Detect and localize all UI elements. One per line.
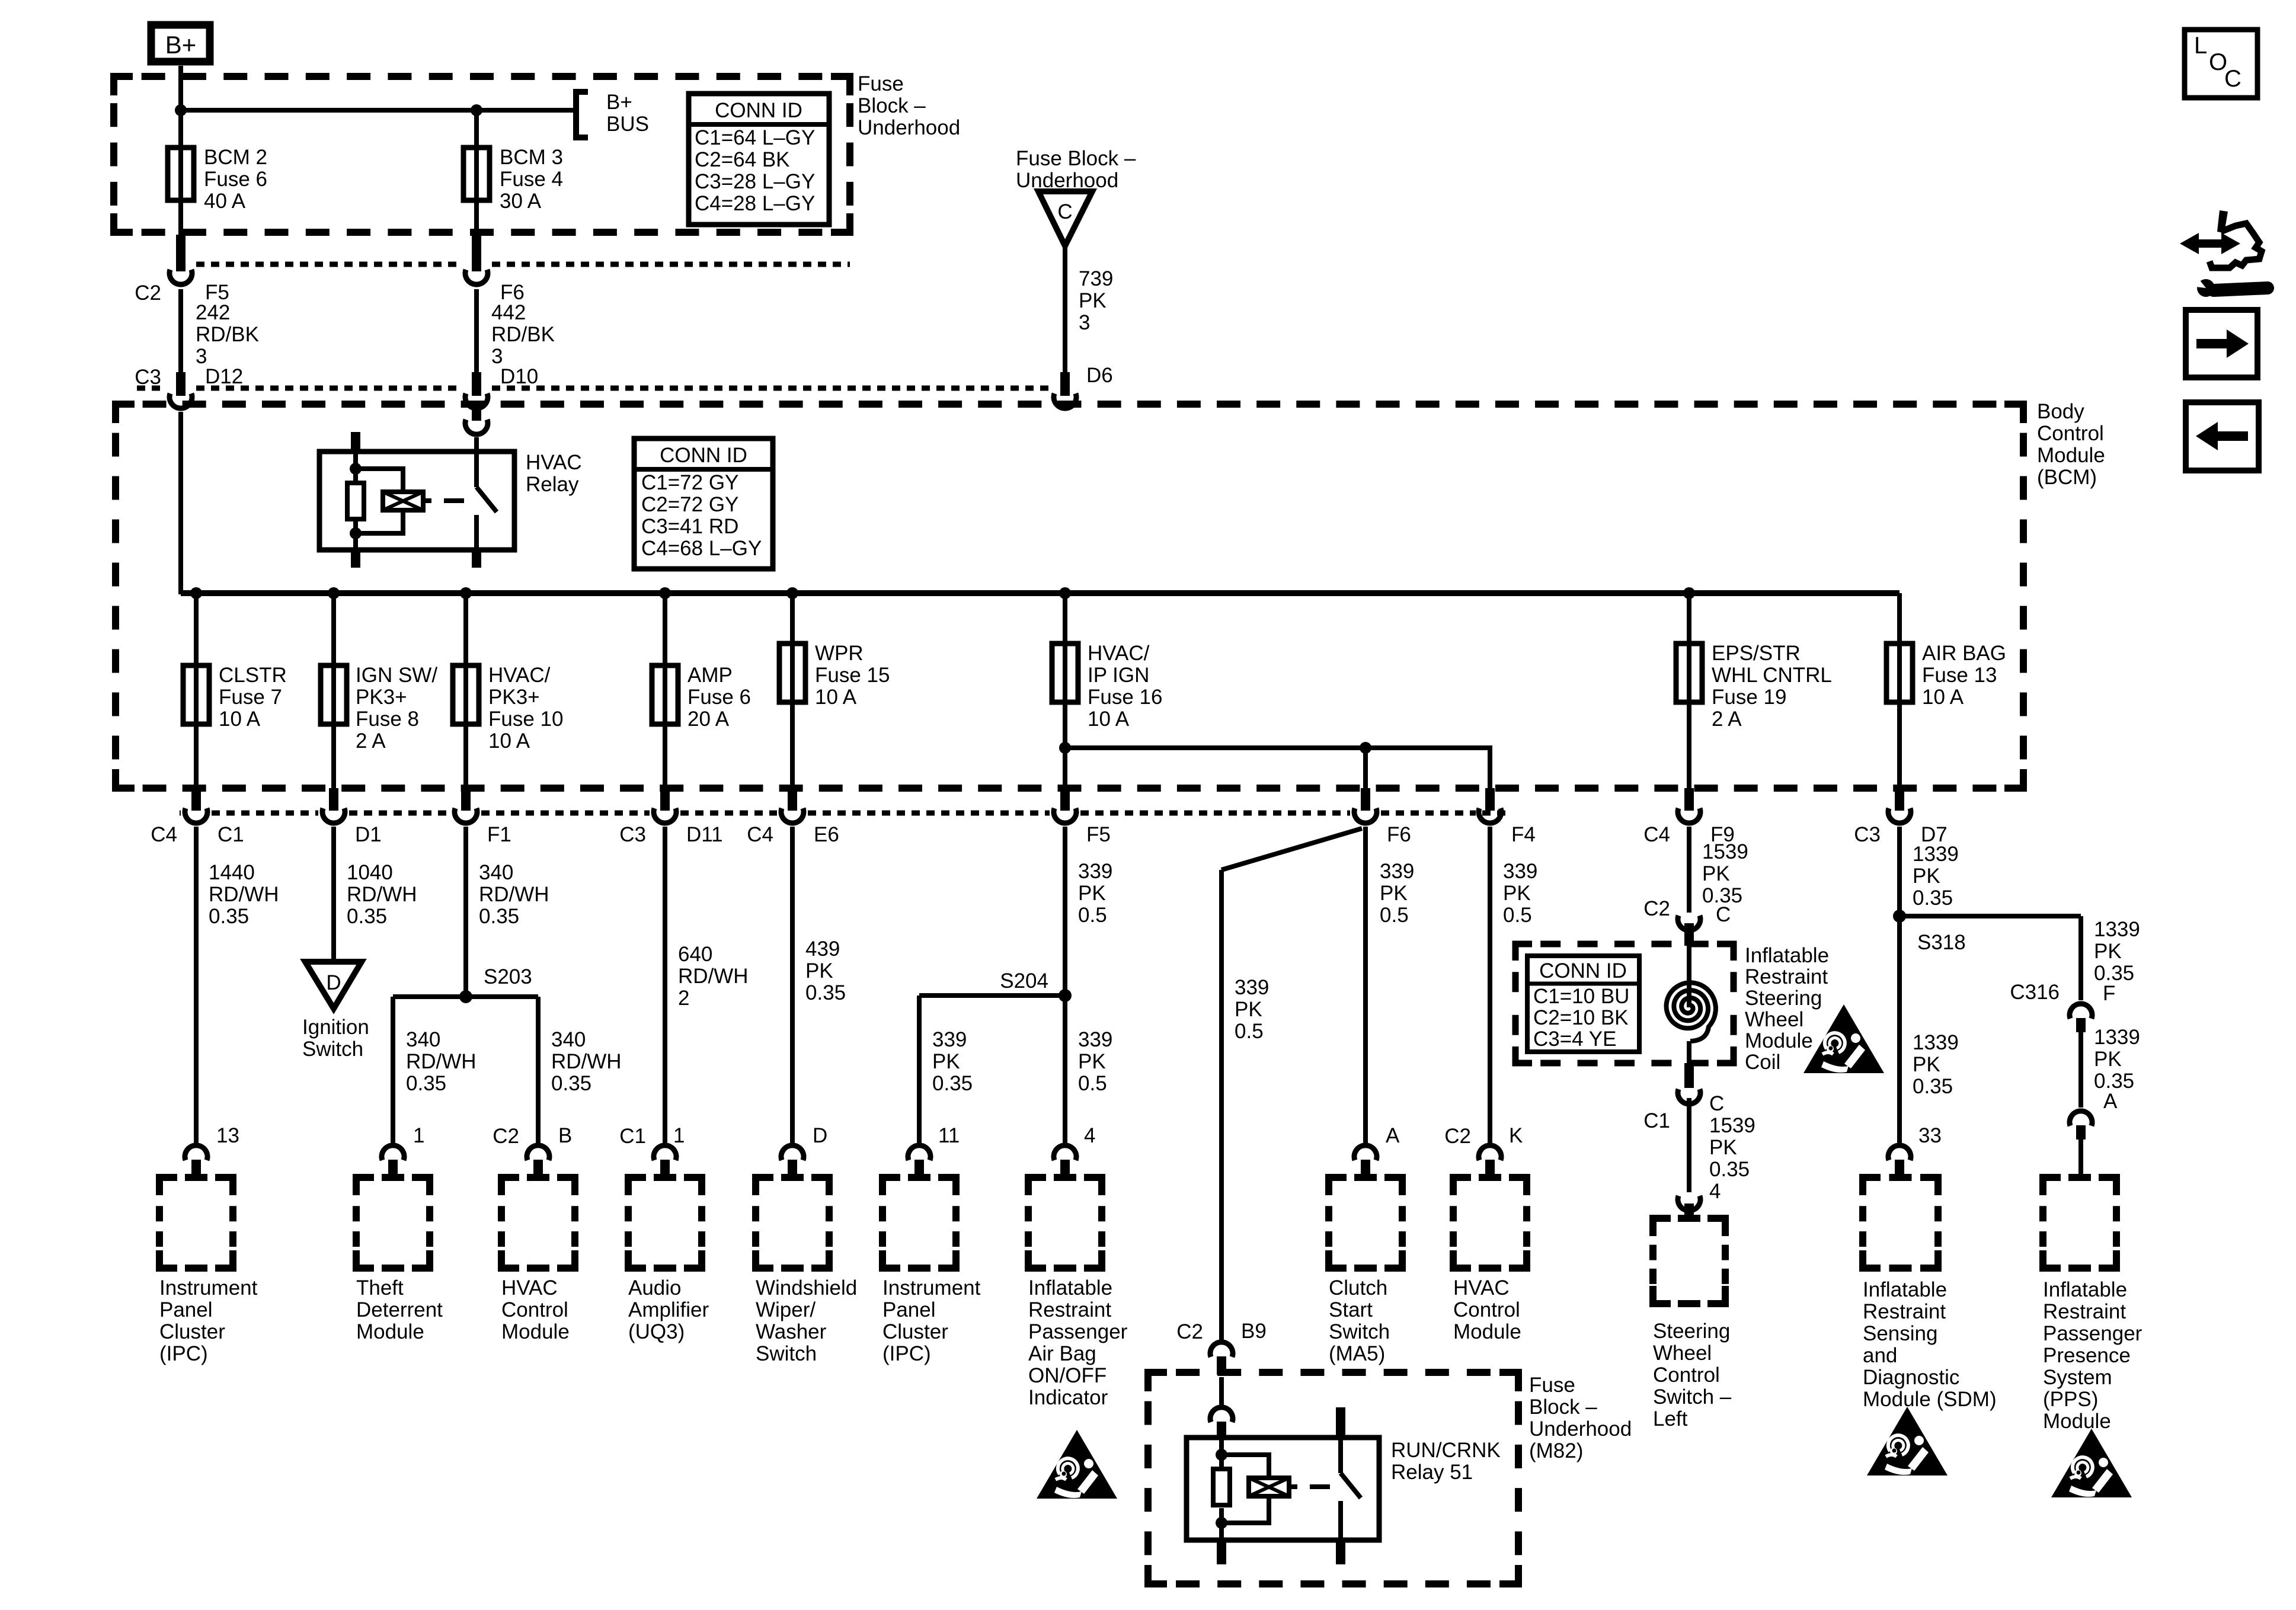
svg-text:Diagnostic: Diagnostic (1863, 1366, 1959, 1389)
svg-text:A: A (2103, 1090, 2118, 1113)
svg-text:Restraint: Restraint (1745, 965, 1828, 988)
svg-text:C1=64 L–GY: C1=64 L–GY (695, 126, 815, 149)
svg-text:10 A: 10 A (219, 708, 261, 731)
svg-text:Fuse 6: Fuse 6 (204, 168, 267, 191)
svg-text:Inflatable: Inflatable (1028, 1276, 1112, 1299)
svg-text:PK: PK (932, 1050, 960, 1073)
connector pin 1 (audio amplifier) (654, 1145, 676, 1160)
svg-text:339: 339 (1380, 860, 1414, 883)
svg-text:WHL CNTRL: WHL CNTRL (1712, 664, 1832, 687)
module box Theft Deterrent Module (356, 1177, 374, 1195)
svg-text:B+: B+ (165, 31, 197, 59)
wire 339 PK (S204 to airbag indicator) (1063, 996, 1067, 1143)
svg-text:11: 11 (938, 1124, 960, 1147)
svg-text:Control: Control (1453, 1298, 1520, 1321)
fuse CLSTR Fuse 7 (194, 593, 199, 665)
connector pin A (clutch start switch) (1354, 1145, 1377, 1160)
svg-text:AIR BAG: AIR BAG (1922, 642, 2006, 665)
svg-text:0.35: 0.35 (479, 905, 519, 928)
svg-text:0.5: 0.5 (1503, 904, 1532, 927)
svg-text:C3: C3 (1854, 823, 1881, 846)
svg-text:0.35: 0.35 (347, 905, 387, 928)
svg-text:Passenger: Passenger (2043, 1322, 2142, 1345)
splice S204 (919, 993, 1065, 998)
svg-text:B: B (558, 1124, 572, 1147)
svg-text:Start: Start (1329, 1298, 1373, 1321)
svg-text:0.35: 0.35 (1913, 1075, 1953, 1098)
table CONN ID (BCM) (634, 438, 773, 569)
relay 51 coil pin bottom (1217, 1540, 1226, 1564)
svg-text:1539: 1539 (1702, 840, 1748, 863)
svg-text:RD/WH: RD/WH (678, 965, 749, 988)
svg-text:D12: D12 (205, 365, 243, 388)
svg-text:C3: C3 (135, 366, 161, 389)
svg-text:Module: Module (501, 1320, 570, 1343)
svg-text:Windshield: Windshield (756, 1276, 857, 1299)
svg-text:C316: C316 (2010, 981, 2060, 1004)
junction at B+ feed (175, 104, 187, 116)
svg-text:Fuse 19: Fuse 19 (1712, 686, 1786, 709)
wire B+ feed vertical (178, 66, 183, 110)
junction bus HVAC/IP IGN (1059, 587, 1071, 599)
svg-text:339: 339 (1235, 976, 1269, 999)
svg-text:339: 339 (1078, 1028, 1112, 1051)
svg-text:C2=64 BK: C2=64 BK (695, 148, 790, 171)
svg-text:C4: C4 (747, 823, 773, 846)
svg-text:EPS/STR: EPS/STR (1712, 642, 1801, 665)
svg-text:B+: B+ (606, 91, 632, 114)
inductor coil symbol (steering wheel module coil) (1687, 946, 1691, 1007)
icon arrow previous box (2186, 402, 2259, 470)
svg-text:D: D (813, 1124, 827, 1147)
splice S203 (393, 994, 538, 999)
connector pin B9 (1210, 1342, 1233, 1357)
svg-text:0.35: 0.35 (1709, 1158, 1750, 1181)
module box Instrument Panel Cluster 2 (882, 1177, 900, 1195)
svg-text:C1: C1 (1643, 1109, 1670, 1132)
connector C3 pin D10 (472, 372, 481, 396)
svg-text:D6: D6 (1086, 364, 1113, 387)
connector pin D (wiper switch) (781, 1145, 804, 1160)
svg-text:640: 640 (678, 943, 712, 966)
svg-text:2 A: 2 A (1712, 708, 1742, 731)
svg-text:A: A (1386, 1124, 1400, 1147)
svg-text:S318: S318 (1917, 931, 1966, 954)
svg-text:Sensing: Sensing (1863, 1322, 1937, 1345)
fuse AIR BAG Fuse 13 (1886, 644, 1913, 702)
svg-text:1440: 1440 (209, 861, 255, 884)
svg-text:10 A: 10 A (1922, 686, 1964, 709)
svg-text:CONN ID: CONN ID (1539, 959, 1627, 982)
wire 1440 RD/WH (C1 to IPC) (194, 827, 199, 1143)
svg-text:2 A: 2 A (356, 729, 386, 753)
svg-text:BCM 2: BCM 2 (204, 146, 267, 169)
relay switch blade (474, 437, 479, 487)
connector pin D7 (BCM bottom) (1895, 788, 1904, 811)
svg-text:Inflatable: Inflatable (1863, 1278, 1947, 1301)
relay RUN/CRNK Relay 51 box (1187, 1438, 1379, 1540)
svg-text:Underhood: Underhood (858, 116, 960, 139)
svg-text:C3=41 RD: C3=41 RD (641, 515, 738, 538)
svg-text:10 A: 10 A (488, 729, 530, 753)
connector pin A (PPS) (2070, 1111, 2092, 1126)
wire 339 PK (F6 to clutch start switch) (1363, 827, 1368, 1143)
junction bus EPS/STR (1683, 587, 1695, 599)
splice S318 (1900, 914, 2081, 918)
svg-text:Module: Module (1745, 1029, 1813, 1052)
svg-text:(BCM): (BCM) (2037, 466, 2097, 489)
svg-text:E6: E6 (814, 823, 839, 846)
fuse IGN SW/PK3+ Fuse 8 (331, 593, 336, 665)
svg-text:Module: Module (2043, 1410, 2111, 1433)
fuse block underhood M82 dashed box (1148, 1372, 1167, 1391)
svg-text:PK: PK (1078, 882, 1106, 905)
svg-text:Passenger: Passenger (1028, 1320, 1128, 1343)
module box Steering Wheel Control Switch Left (1653, 1218, 1671, 1236)
junction branch at F5 column (1059, 742, 1071, 754)
svg-text:PK: PK (1913, 1053, 1940, 1076)
connector C2 (coil) (1678, 916, 1700, 930)
wire 1339 PK (D7 to S318) (1897, 827, 1902, 916)
connector C2 pin F5 (176, 235, 186, 271)
connector pin B (HVAC control) (527, 1145, 549, 1160)
svg-text:4: 4 (1084, 1124, 1095, 1147)
svg-text:PK: PK (2094, 1048, 2122, 1071)
svg-text:C2: C2 (493, 1125, 519, 1148)
svg-text:PK: PK (1078, 1050, 1106, 1073)
svg-text:Clutch: Clutch (1329, 1276, 1387, 1299)
svg-text:Module: Module (2037, 444, 2105, 467)
svg-text:F6: F6 (1387, 823, 1411, 846)
svg-text:Relay 51: Relay 51 (1391, 1461, 1473, 1484)
svg-text:Fuse 10: Fuse 10 (488, 708, 563, 731)
wire 339 PK (F5 to S204) (1063, 827, 1067, 996)
svg-text:Inflatable: Inflatable (2043, 1278, 2127, 1301)
svg-text:Fuse: Fuse (1529, 1374, 1575, 1397)
svg-text:S204: S204 (1000, 969, 1048, 993)
svg-text:C4: C4 (1643, 823, 1670, 846)
connector pin 4 (steering switch) (1678, 1196, 1700, 1211)
svg-text:RD/WH: RD/WH (209, 883, 279, 906)
svg-text:Switch: Switch (302, 1038, 363, 1061)
icon LOC box (2185, 30, 2257, 98)
svg-text:D10: D10 (500, 365, 538, 388)
svg-text:Switch: Switch (1329, 1320, 1390, 1343)
svg-text:IGN SW/: IGN SW/ (356, 664, 437, 687)
wire 242 RD/BK (F5 to D12) (178, 289, 183, 373)
svg-text:Steering: Steering (1745, 987, 1822, 1010)
svg-text:RD/WH: RD/WH (551, 1050, 622, 1073)
svg-text:4: 4 (1709, 1180, 1721, 1203)
svg-text:Deterrent: Deterrent (356, 1298, 443, 1321)
module box Body Control Module BCM dashed (116, 404, 135, 423)
svg-text:2: 2 (678, 987, 689, 1010)
wire 339 PK (F4 to HVAC control) (1488, 827, 1492, 1143)
svg-text:Fuse Block –: Fuse Block – (1016, 147, 1136, 170)
svg-text:0.35: 0.35 (406, 1072, 446, 1095)
svg-text:Relay: Relay (526, 473, 579, 496)
off-page connector C triangle (1038, 191, 1092, 246)
svg-text:Wheel: Wheel (1653, 1342, 1712, 1365)
svg-text:(PPS): (PPS) (2043, 1388, 2098, 1411)
svg-text:PK: PK (1079, 289, 1107, 312)
off-page connector D triangle (ignition switch) (305, 962, 362, 1009)
icon arrow next box (2186, 310, 2257, 377)
svg-text:BUS: BUS (606, 113, 649, 136)
icon connector location view (car with arrow and wrench) (2180, 233, 2240, 254)
svg-text:242: 242 (196, 301, 230, 324)
svg-text:739: 739 (1079, 267, 1113, 290)
svg-text:L: L (2194, 33, 2207, 59)
power symbol B+ terminal (151, 25, 210, 62)
connector pin 11 (IPC) (908, 1145, 930, 1160)
relay resistor element (353, 452, 358, 483)
svg-text:Fuse 4: Fuse 4 (500, 168, 563, 191)
svg-text:HVAC: HVAC (501, 1276, 558, 1299)
svg-text:0.5: 0.5 (1380, 904, 1409, 927)
svg-text:439: 439 (805, 937, 840, 961)
svg-text:1339: 1339 (1913, 843, 1959, 866)
svg-text:F: F (2103, 982, 2115, 1005)
relay switch pin bottom (472, 550, 481, 568)
module box HVAC Control Module (501, 1177, 519, 1195)
relay 51 coil-switch dashed link (1289, 1484, 1297, 1489)
module box Windshield Wiper/Washer Switch (756, 1177, 773, 1195)
connector pin F6 (BCM bottom) (1361, 788, 1370, 811)
svg-text:Audio: Audio (628, 1276, 682, 1299)
svg-text:Cluster: Cluster (159, 1320, 225, 1343)
svg-text:WPR: WPR (815, 642, 864, 665)
connector C3 pin D12 (176, 372, 186, 396)
svg-text:RD/WH: RD/WH (406, 1050, 477, 1073)
svg-text:442: 442 (491, 301, 526, 324)
svg-text:Panel: Panel (882, 1298, 936, 1321)
svg-text:Restraint: Restraint (1863, 1300, 1946, 1323)
connector pin E6 (BCM bottom) (788, 788, 797, 811)
connector pin 1 (theft deterrent) (382, 1145, 404, 1160)
svg-text:C4: C4 (151, 823, 177, 846)
svg-text:HVAC: HVAC (1453, 1276, 1510, 1299)
svg-text:C4=68 L–GY: C4=68 L–GY (641, 537, 762, 560)
connector pin K (HVAC control) (1479, 1145, 1501, 1160)
svg-text:Restraint: Restraint (2043, 1300, 2126, 1323)
svg-text:RD/BK: RD/BK (491, 323, 555, 346)
module box HVAC Control Module 2 (1453, 1177, 1471, 1195)
relay coil pin bottom (351, 550, 360, 568)
warning icon airbag (coil) (1803, 1004, 1884, 1073)
relay coil to switch dashed link (423, 498, 431, 503)
connector pin F1 (BCM bottom) (461, 788, 471, 811)
junction bus WPR (786, 587, 798, 599)
wire F6 column drop (1363, 748, 1368, 789)
wire 339 PK diagonal (F6 to B9 branch) (1221, 828, 1362, 870)
svg-text:1539: 1539 (1709, 1114, 1755, 1137)
svg-text:C: C (1057, 200, 1072, 223)
wire 1539 PK (F9 to C2) (1687, 827, 1691, 913)
svg-text:339: 339 (932, 1028, 967, 1051)
svg-text:ON/OFF: ON/OFF (1028, 1364, 1107, 1387)
svg-text:AMP: AMP (687, 664, 733, 687)
fuse HVAC/IP IGN Fuse 16 (1063, 593, 1067, 644)
svg-text:B9: B9 (1241, 1320, 1267, 1343)
warning icon airbag (indicator) (1037, 1430, 1117, 1499)
table CONN ID (fuse block underhood) (689, 94, 829, 225)
svg-text:Indicator: Indicator (1028, 1386, 1108, 1409)
svg-text:0.35: 0.35 (932, 1072, 973, 1095)
svg-text:PK: PK (2094, 940, 2122, 963)
svg-text:33: 33 (1918, 1124, 1942, 1147)
svg-text:20 A: 20 A (687, 708, 730, 731)
svg-text:Module: Module (1453, 1320, 1521, 1343)
wire 340 RD/WH (S203 to theft deterrent) (391, 997, 395, 1143)
svg-text:CLSTR: CLSTR (219, 664, 287, 687)
relay 51 switch blade (1336, 1407, 1345, 1438)
svg-text:PK: PK (1380, 882, 1408, 905)
connector pin 33 (SDM) (1888, 1145, 1911, 1160)
svg-text:C: C (1716, 903, 1731, 926)
svg-text:339: 339 (1503, 860, 1537, 883)
svg-text:C1: C1 (218, 823, 244, 846)
wire 1040 RD/WH (D1 to ignition switch) (331, 827, 336, 962)
svg-text:(M82): (M82) (1529, 1439, 1583, 1462)
wire D12 into BCM (178, 412, 183, 594)
svg-text:Fuse 7: Fuse 7 (219, 686, 282, 709)
svg-text:0.35: 0.35 (1913, 886, 1953, 910)
svg-text:C: C (1709, 1092, 1724, 1115)
svg-text:and: and (1863, 1344, 1897, 1367)
svg-text:Fuse: Fuse (858, 72, 904, 95)
relay 51 coil element (1221, 1455, 1269, 1478)
svg-text:Washer: Washer (756, 1320, 827, 1343)
svg-text:1339: 1339 (2094, 1026, 2140, 1049)
svg-text:10 A: 10 A (1088, 708, 1130, 731)
svg-text:C1: C1 (619, 1125, 646, 1148)
svg-text:Fuse 8: Fuse 8 (356, 708, 419, 731)
svg-text:F4: F4 (1511, 823, 1536, 846)
svg-text:1040: 1040 (347, 861, 393, 884)
module box Inflatable Restraint Sensing and Diagnostic Module (1863, 1177, 1881, 1195)
svg-text:340: 340 (406, 1028, 440, 1051)
svg-text:340: 340 (479, 861, 513, 884)
svg-text:Fuse 16: Fuse 16 (1088, 686, 1162, 709)
wire 1339 PK (C316 to PPS) (2078, 1032, 2083, 1108)
svg-text:PK3+: PK3+ (488, 686, 540, 709)
svg-text:Module (SDM): Module (SDM) (1863, 1388, 1997, 1411)
svg-text:D: D (326, 971, 341, 994)
svg-text:D11: D11 (686, 823, 723, 846)
junction bus CLSTR (190, 587, 202, 599)
svg-text:PK3+: PK3+ (356, 686, 407, 709)
svg-text:0.5: 0.5 (1078, 904, 1107, 927)
relay 51 switch pin bottom (1336, 1540, 1345, 1564)
junction branch at F6 column (1360, 742, 1371, 754)
svg-text:Ignition: Ignition (302, 1016, 369, 1039)
junction bus AMP (659, 587, 671, 599)
fuse WPR Fuse 15 (790, 593, 795, 644)
svg-text:(IPC): (IPC) (159, 1342, 208, 1365)
svg-text:C2=10 BK: C2=10 BK (1533, 1006, 1629, 1029)
svg-text:Panel: Panel (159, 1298, 213, 1321)
svg-text:HVAC/: HVAC/ (1088, 642, 1150, 665)
connector row C2 dotted line (196, 262, 461, 267)
svg-text:Control: Control (1653, 1363, 1720, 1387)
svg-text:F1: F1 (487, 823, 511, 846)
svg-text:0.5: 0.5 (1235, 1020, 1264, 1043)
svg-text:Fuse 13: Fuse 13 (1922, 664, 1997, 687)
svg-text:Block –: Block – (1529, 1395, 1597, 1419)
svg-text:PK: PK (1709, 1136, 1737, 1159)
relay coil feed pin top (351, 432, 360, 452)
svg-text:Wheel: Wheel (1745, 1008, 1803, 1031)
svg-text:Restraint: Restraint (1028, 1298, 1111, 1321)
svg-text:339: 339 (1078, 860, 1112, 883)
connector pin 4 (airbag indicator) (1054, 1145, 1076, 1160)
wire B+ bus horizontal (181, 108, 575, 113)
svg-text:C1=10 BU: C1=10 BU (1533, 985, 1629, 1008)
svg-text:RD/WH: RD/WH (479, 883, 549, 906)
svg-text:C: C (2224, 66, 2241, 92)
relay U1 HVAC Relay box (319, 452, 514, 550)
connector C2 pin F6 (472, 235, 481, 271)
connector pin D1 (BCM bottom) (329, 788, 338, 811)
svg-text:0.35: 0.35 (551, 1072, 591, 1095)
svg-text:Instrument: Instrument (159, 1276, 258, 1299)
svg-text:CONN ID: CONN ID (715, 99, 802, 122)
junction bus HVAC fuse (460, 587, 472, 599)
svg-text:PK: PK (1702, 862, 1730, 885)
svg-text:C2: C2 (135, 281, 161, 305)
wire 1339 PK (S318 to C316) (2078, 916, 2083, 1000)
svg-text:C4=28 L–GY: C4=28 L–GY (695, 192, 815, 215)
module box Inflatable Restraint Steering Wheel Module Coil dashed (1515, 944, 1532, 961)
svg-text:HVAC/: HVAC/ (488, 664, 551, 687)
svg-text:(IPC): (IPC) (882, 1342, 931, 1365)
svg-text:Fuse 6: Fuse 6 (687, 686, 751, 709)
svg-text:340: 340 (551, 1028, 586, 1051)
wire ignition feed branch (to F6 and F4) (1065, 748, 1490, 789)
svg-text:PK: PK (805, 959, 833, 982)
wire BCM internal B+ bus (181, 590, 1900, 596)
module box Clutch Start Switch (1329, 1177, 1347, 1195)
svg-text:Module: Module (356, 1320, 424, 1343)
svg-text:Inflatable: Inflatable (1745, 944, 1829, 967)
svg-text:Underhood: Underhood (1529, 1417, 1632, 1441)
junction at BCM3 fuse tap (471, 104, 482, 116)
svg-text:RD/BK: RD/BK (196, 323, 259, 346)
connector pin F9 (BCM bottom) (1684, 788, 1694, 811)
junction bus IGN SW (328, 587, 340, 599)
svg-text:IP IGN: IP IGN (1088, 664, 1149, 687)
svg-text:C1=72 GY: C1=72 GY (641, 471, 738, 494)
fuse block underhood dashed box (top) (114, 76, 133, 95)
svg-text:C3=28 L–GY: C3=28 L–GY (695, 170, 815, 193)
svg-text:PK: PK (1913, 865, 1940, 888)
fuse HVAC/PK3+ Fuse 10 (463, 593, 468, 665)
wire 739 PK (C to D6) (1063, 246, 1067, 373)
svg-text:C2=72 GY: C2=72 GY (641, 493, 738, 516)
relay socket connector (M82) (1219, 1377, 1224, 1405)
svg-text:Control: Control (2037, 422, 2104, 445)
svg-text:Control: Control (501, 1298, 568, 1321)
connector row C3 dotted line (137, 386, 165, 391)
fuse BCM 3 Fuse 4 30A (474, 110, 479, 148)
svg-text:3: 3 (1079, 311, 1090, 334)
svg-text:PK: PK (1235, 998, 1262, 1021)
wire 340 RD/WH (S203 to HVAC control) (536, 997, 541, 1143)
wire 1539 PK (C1 to steering switch) (1687, 1098, 1691, 1192)
relay 51 resistor element (1219, 1438, 1224, 1469)
svg-text:Left: Left (1653, 1407, 1688, 1430)
